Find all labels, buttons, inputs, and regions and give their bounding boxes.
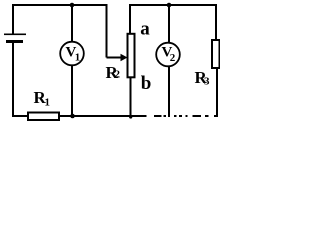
svg-text:b: b [141, 73, 152, 94]
resistor R3 box [212, 40, 220, 68]
wire R3 top lead [215, 4, 217, 40]
battery negative plate (short thick) [6, 40, 23, 43]
wire slider arm horizontal [107, 57, 123, 59]
resistor R1 box [28, 113, 59, 121]
wire R2 bottom lead [130, 77, 132, 116]
svg-text:a: a [140, 18, 150, 39]
wire top right loop [130, 4, 217, 6]
voltmeter V1 circle [60, 42, 84, 66]
wire V2 upper lead [168, 4, 170, 43]
svg-text:2: 2 [115, 69, 121, 81]
svg-text:3: 3 [204, 76, 210, 88]
wire top left loop [13, 4, 107, 6]
wire V1 upper lead [71, 4, 73, 42]
svg-text:1: 1 [75, 52, 81, 64]
node dot junction top V1 [70, 3, 75, 8]
svg-text:2: 2 [170, 52, 176, 64]
wire left branch lower [12, 43, 14, 117]
wire bottom dashed segments [154, 115, 218, 117]
battery positive plate (long thin) [4, 34, 26, 36]
rheostat slider arrowhead [121, 54, 128, 61]
voltmeter V2 circle [156, 43, 180, 67]
node dot junction bottom V1 [70, 114, 75, 119]
svg-text:1: 1 [45, 97, 51, 109]
wire R3 bottom lead [216, 68, 218, 116]
wire left branch upper [12, 4, 14, 34]
wire V1 lower lead [71, 66, 73, 116]
wire slider arm vertical [106, 4, 108, 58]
wire bottom solid [12, 115, 147, 117]
rheostat R2 box [128, 34, 135, 78]
node dot junction R2 bottom [129, 115, 132, 118]
wire V2 lower lead [168, 66, 170, 117]
wire R2 top lead [129, 4, 131, 34]
node dot junction top V2 [167, 3, 172, 8]
